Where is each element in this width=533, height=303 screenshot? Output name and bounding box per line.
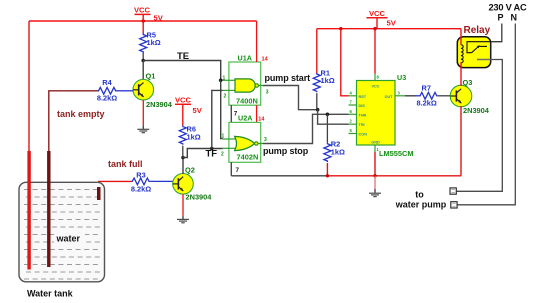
svg-text:R4: R4 xyxy=(102,78,112,87)
svg-text:tank empty: tank empty xyxy=(57,109,105,119)
wire U1A-U2A pin14 link xyxy=(256,105,258,122)
svg-text:water pump: water pump xyxy=(395,199,447,209)
svg-text:THR: THR xyxy=(359,113,367,117)
svg-text:N: N xyxy=(511,13,518,23)
svg-text:1kΩ: 1kΩ xyxy=(321,76,335,85)
relay K1 xyxy=(457,37,490,68)
wire 555 GND pin1 xyxy=(374,152,376,176)
node bus dot VCC pin xyxy=(373,27,376,30)
ground below Q2 xyxy=(177,216,189,223)
svg-text:2: 2 xyxy=(221,151,224,157)
svg-text:U3: U3 xyxy=(397,73,406,82)
svg-text:to: to xyxy=(415,190,424,200)
svg-text:Q2: Q2 xyxy=(185,166,195,175)
wire TE net horizontal and down to gates xyxy=(143,61,222,81)
node R1 junction xyxy=(316,108,320,112)
probe tank full xyxy=(97,187,101,200)
svg-text:VCC: VCC xyxy=(134,5,151,14)
wire ground bus black part xyxy=(231,175,327,177)
IC U3 LM555CM xyxy=(349,73,414,158)
resistor R3 8.2k xyxy=(131,171,173,194)
relay output contact xyxy=(477,59,491,61)
svg-text:DIS: DIS xyxy=(359,104,366,108)
wire TF to U1A pin2 xyxy=(212,90,223,148)
svg-text:tank full: tank full xyxy=(108,159,143,169)
wire VCC right bus xyxy=(317,28,461,30)
resistor R6 1k xyxy=(179,125,200,158)
svg-text:VCC: VCC xyxy=(371,85,379,89)
svg-text:U1A: U1A xyxy=(238,54,252,63)
svg-text:2N3904: 2N3904 xyxy=(186,193,213,202)
node R6 Q2 TF junction xyxy=(181,156,185,160)
gate U1A 7400N xyxy=(223,54,269,106)
ground symbol center xyxy=(369,176,381,197)
resistor R5 1k xyxy=(140,30,161,60)
wire Q3 emitter to ground bus xyxy=(460,106,462,176)
wire tank-empty probe to R4 xyxy=(49,91,97,152)
wire U1A pin14 VCC xyxy=(256,21,258,62)
svg-text:2: 2 xyxy=(224,94,227,100)
wire N down to terminal 2 xyxy=(457,24,515,205)
wire 555 OUT to R7 xyxy=(405,95,416,97)
svg-text:LM555CM: LM555CM xyxy=(379,149,414,158)
power VCC symbol 2 xyxy=(175,96,203,126)
svg-text:2N3904: 2N3904 xyxy=(463,106,490,115)
svg-text:7400N: 7400N xyxy=(236,96,258,105)
svg-text:14: 14 xyxy=(262,57,269,63)
svg-text:230 V AC: 230 V AC xyxy=(489,3,527,13)
svg-text:7402N: 7402N xyxy=(237,153,259,162)
resistor R4 8.2k xyxy=(97,78,133,103)
svg-text:1kΩ: 1kΩ xyxy=(187,133,201,142)
node bus dot RST xyxy=(339,27,342,30)
node TE junction dot xyxy=(141,59,145,63)
resistor R1 1k xyxy=(313,69,334,110)
svg-text:RST: RST xyxy=(359,95,367,99)
wire TF net xyxy=(183,149,223,158)
transistor Q1 2N3904 xyxy=(133,72,173,110)
svg-text:1kΩ: 1kΩ xyxy=(331,147,345,156)
svg-text:pump start: pump start xyxy=(265,73,311,83)
node VCC bus junction xyxy=(142,19,145,22)
wire R1 top xyxy=(316,29,318,73)
svg-text:Q1: Q1 xyxy=(146,72,156,81)
node gnd bus 555 xyxy=(373,174,376,177)
wire VCC to R5 xyxy=(142,21,144,33)
wire pump stop net xyxy=(263,114,349,143)
svg-text:Relay: Relay xyxy=(464,25,491,36)
terminal 2 xyxy=(451,202,457,208)
ground below Q1 xyxy=(137,125,149,133)
svg-text:14: 14 xyxy=(258,116,265,122)
svg-text:3: 3 xyxy=(266,90,269,96)
wire VCC down to tank probe xyxy=(28,21,30,152)
power VCC symbol 1 xyxy=(134,5,164,22)
pin stubs xyxy=(349,95,357,97)
wire U2A pin7 to ground bus xyxy=(230,162,232,176)
svg-text:pump stop: pump stop xyxy=(263,146,309,156)
svg-text:8.2kΩ: 8.2kΩ xyxy=(131,185,151,194)
wire U1A pin7 gnd link xyxy=(230,105,232,122)
node gnd bus R2 xyxy=(326,174,329,177)
svg-text:5V: 5V xyxy=(387,19,397,28)
relay switch xyxy=(467,42,491,53)
transistor Q3 2N3904 xyxy=(450,78,490,115)
wire to 555 TRI xyxy=(318,110,349,125)
wire ground bus red part xyxy=(327,175,461,177)
wire RST red xyxy=(341,29,349,96)
svg-text:VCC: VCC xyxy=(369,9,386,18)
svg-text:GND: GND xyxy=(371,141,380,145)
wire VCC top-left red bus xyxy=(29,20,257,22)
svg-text:P: P xyxy=(498,13,504,23)
svg-text:8.2kΩ: 8.2kΩ xyxy=(417,99,437,108)
wire relay output down to terminal 1 xyxy=(456,60,502,192)
probe common (VCC) xyxy=(27,151,30,270)
node R2 junction xyxy=(326,113,330,117)
probe tank empty xyxy=(47,151,50,267)
svg-text:1kΩ: 1kΩ xyxy=(147,38,161,47)
wire Q1 collector xyxy=(142,61,144,81)
relay coil xyxy=(461,45,463,63)
svg-text:water: water xyxy=(56,234,81,244)
terminal 1 xyxy=(450,188,456,194)
svg-text:OUT: OUT xyxy=(384,95,393,99)
wire TE to U2A pin1 xyxy=(221,80,223,138)
svg-text:3: 3 xyxy=(264,137,267,143)
resistor R2 1k xyxy=(324,114,345,176)
gate U2A 7402N xyxy=(221,113,267,162)
svg-text:TF: TF xyxy=(206,149,218,160)
svg-text:TRI: TRI xyxy=(359,123,365,127)
node U1A pin1 junction xyxy=(219,79,223,83)
svg-text:1: 1 xyxy=(222,133,225,139)
resistor R7 8.2k xyxy=(416,84,451,108)
svg-text:U2A: U2A xyxy=(238,113,252,122)
transistor Q2 2N3904 xyxy=(173,166,213,202)
svg-text:R3: R3 xyxy=(136,171,145,180)
wire VCC to relay coil (over box) xyxy=(460,29,462,45)
svg-text:5V: 5V xyxy=(193,106,203,115)
wire pump start net xyxy=(263,86,318,110)
svg-text:TE: TE xyxy=(177,51,189,62)
svg-text:5V: 5V xyxy=(154,13,164,22)
wire relay coil to Q3 collector xyxy=(460,62,462,86)
svg-text:Water tank: Water tank xyxy=(27,289,74,299)
water tank xyxy=(19,182,105,281)
svg-text:CON: CON xyxy=(359,133,368,137)
svg-text:1: 1 xyxy=(223,75,226,81)
wire P to relay common xyxy=(491,24,502,42)
svg-text:Q3: Q3 xyxy=(463,78,473,87)
wire Q1 emitter xyxy=(142,100,144,125)
svg-text:7: 7 xyxy=(236,167,240,174)
svg-text:2N3904: 2N3904 xyxy=(146,100,173,109)
node TF junction xyxy=(210,147,214,151)
wire 555 VCC pin8 xyxy=(374,29,376,74)
wire Q2 emitter xyxy=(182,194,184,216)
wire tank-full probe to R3 xyxy=(99,181,131,188)
svg-text:VCC: VCC xyxy=(175,96,192,105)
svg-text:R7: R7 xyxy=(422,84,431,93)
wire Q2 collector xyxy=(182,158,184,175)
svg-text:8.2kΩ: 8.2kΩ xyxy=(97,94,117,103)
power VCC symbol 3 xyxy=(367,9,397,29)
